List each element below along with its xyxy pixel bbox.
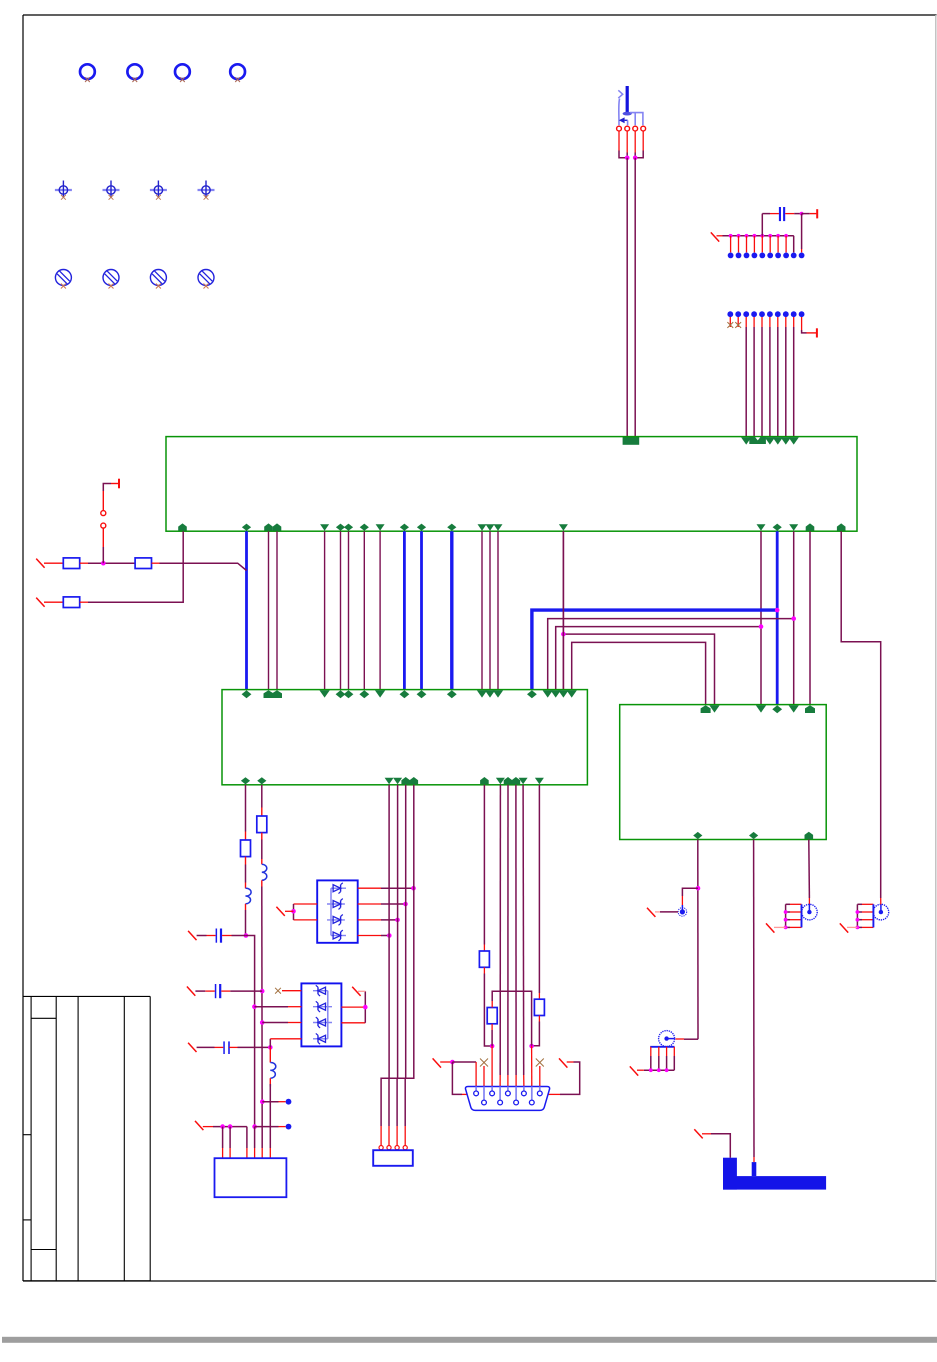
mounting hole H3	[175, 64, 190, 79]
wire U3 pin 753.6 down to shield tab	[753, 840, 755, 1158]
U1 bottom terminal GND pent	[178, 523, 187, 530]
U2 top terminal x=571.7	[567, 690, 577, 697]
C2 right wire to column	[230, 990, 262, 992]
resistor R2	[135, 558, 151, 569]
inductor L1	[246, 888, 252, 904]
wire D1 pin to column x=405.5	[381, 903, 406, 905]
wire U1->U2 x=490.0	[489, 531, 491, 689]
window bottom gray bar	[2, 1337, 937, 1343]
J4 tie wire	[785, 904, 787, 927]
junction J4 tie	[784, 926, 788, 930]
junction J4 tie	[784, 918, 788, 922]
row1 stub	[44, 562, 63, 564]
wire D1 pin to column x=413.5	[381, 887, 414, 889]
D1 right pin y=935.5	[358, 935, 381, 937]
R7 top stub	[491, 1001, 493, 1008]
junction	[403, 902, 408, 907]
U1 top pad for switch nets	[623, 437, 640, 445]
junction on TP bus at x=778.1	[776, 234, 780, 238]
inductor L2	[262, 864, 267, 880]
junction at (563.4,634.1)	[561, 632, 566, 637]
module edge pads (blue dots) bank 2	[727, 311, 733, 317]
D2 zener diode at y=990.7	[318, 987, 326, 994]
junction C1 node	[244, 933, 249, 938]
resistor R7	[487, 1008, 497, 1024]
DB9 bottom row pin 9	[531, 1087, 533, 1100]
inductor L3	[270, 1062, 276, 1078]
wire L1 to C1 junction	[245, 910, 247, 936]
C2 right stub	[221, 990, 230, 992]
wire U2 pin 484.4 down to R6	[483, 785, 485, 945]
wire R4 to L1	[245, 865, 247, 883]
wire pad x=746.2 down to U1	[745, 327, 747, 437]
sheet border frame	[23, 14, 937, 16]
junction J3 bus	[649, 1068, 653, 1072]
switch S1 arrow	[619, 117, 625, 123]
junction C9 right	[800, 212, 804, 216]
U2 top terminal x=404.4	[400, 690, 410, 698]
U2 top terminal x=547.7	[543, 690, 553, 697]
D1 zener diode at y=904.0	[333, 901, 341, 908]
C3 right stub	[229, 1046, 237, 1048]
J3 tie bus	[644, 1069, 675, 1071]
junction J3 bus	[665, 1068, 669, 1072]
resistor R5	[257, 816, 267, 833]
no-connect X D2 pin1	[275, 988, 281, 994]
D2 internal bus	[327, 991, 329, 1039]
DB9 right NC stub	[567, 1061, 574, 1063]
row1 wire to blue column	[160, 563, 247, 570]
junction on TP bus at x=762.3	[760, 234, 764, 238]
D2 right pin3 wire	[341, 1022, 365, 1024]
L1 bottom stub	[245, 904, 247, 910]
junction C2 node	[260, 989, 265, 994]
shield bracket B1 tab	[752, 1162, 757, 1176]
R1 right stub	[80, 562, 88, 564]
wire U2 pin 261.8 down	[261, 785, 263, 808]
no-connect slash on TP bus	[711, 232, 719, 241]
U2 top terminal x=563.4	[558, 690, 568, 697]
switch S1 chevron	[618, 90, 622, 98]
no-connect slash C2	[187, 987, 195, 996]
R2 right stub	[152, 562, 160, 564]
no-connect X on pad1	[727, 322, 733, 328]
resistor R1	[63, 558, 79, 569]
jumper JP1 wire up	[102, 547, 104, 563]
wire U1->U2 x=451.8	[450, 531, 453, 689]
U2 top terminal x=380.1	[375, 690, 385, 697]
junction on TP bus at x=738.5	[737, 234, 741, 238]
junction jumper row1	[101, 561, 106, 566]
U1 bottom terminal x=277.0	[273, 523, 282, 530]
pin stubs of S1	[618, 131, 620, 150]
C3 left stub	[215, 1046, 224, 1048]
U2 top terminal x=482.0	[477, 690, 487, 697]
fiducial mark FID4	[198, 189, 215, 191]
U1 bottom terminal x=841.2	[837, 523, 846, 530]
R7 bottom stub	[491, 1024, 493, 1030]
no-connect slash D2 right	[352, 987, 360, 996]
wire U1->U2 x=268.5	[268, 531, 270, 689]
wire D2 pin4 corner down to L3	[269, 1039, 271, 1048]
L3 top stub	[269, 1047, 271, 1062]
supply T terminal JP1	[118, 479, 120, 489]
C3 left wire to NC	[197, 1046, 215, 1048]
wire pad x=762.0 down to U1	[761, 327, 763, 437]
junction DB9 left loop	[450, 1060, 455, 1065]
J3 pin at x=650.8	[650, 1047, 652, 1056]
wire U1->U2 x=340.5	[340, 531, 342, 689]
wire U3 pin 697.8 down	[697, 840, 699, 1040]
U1 bottom terminal x=793.7 and wire to U3	[789, 524, 798, 531]
no-connect slash DB9 left	[433, 1058, 441, 1067]
C1 left wire to NC	[197, 935, 207, 937]
TP2 wire to column	[255, 1126, 279, 1128]
wire U1->U2 x=482.0	[481, 531, 483, 689]
J4 body bar	[801, 904, 803, 927]
J1 pin circle 3	[395, 1146, 399, 1150]
D1 right pin y=904.0	[358, 903, 381, 905]
junction	[411, 886, 416, 891]
wire S1 net A down to module U1	[626, 158, 628, 437]
TP pin stub	[769, 236, 771, 253]
junction at S1 pin3	[633, 156, 638, 161]
C1 right stub	[222, 935, 231, 937]
wire pad x=754.1 down to U1	[753, 327, 755, 437]
wire S1 net B down to module U1	[634, 158, 636, 437]
no-connect slash bracket	[694, 1129, 702, 1138]
TP2 stub	[279, 1126, 286, 1128]
wire D1 pin to column x=389.3	[381, 935, 389, 937]
wire U1->U2 x=364.3	[363, 531, 365, 689]
wire from C9 node down to pad 10	[801, 214, 803, 249]
D1 zener diode at y=888.2	[333, 885, 341, 892]
wire U3 pin 808.8 down to TP5	[808, 840, 811, 899]
shield bracket B1 vertical arm	[723, 1158, 737, 1190]
DB9 pin9 stub with X	[539, 1066, 541, 1087]
wire pad x=793.7 down to U1	[793, 327, 795, 437]
no-connect X DB9 pin6	[480, 1059, 488, 1067]
no-connect slash J5	[840, 923, 848, 932]
keepout circle K4	[198, 270, 214, 286]
TP pin stub	[777, 236, 779, 253]
jumper JP1 wire to supply	[102, 491, 104, 511]
U2 top terminal x=451.8	[447, 690, 457, 698]
TP1 stub	[279, 1101, 286, 1103]
U1 bottom terminal x=777.2 blue wire to U3	[773, 524, 782, 531]
junction D1 left tie	[291, 909, 296, 914]
junction TP2 node	[252, 1124, 257, 1129]
TP pin stub	[753, 236, 755, 253]
wire U1->U2 x=380.1	[379, 531, 381, 689]
C2 left stub	[205, 990, 215, 992]
D2 left pin1 stub to X	[282, 990, 301, 992]
mounting hole H4	[230, 64, 245, 79]
wire U2 pin 508 down to DB9	[507, 785, 509, 1075]
U2 top terminal x=421.5	[417, 690, 427, 698]
wire from U1 841.2 jog right to far right testpoint	[841, 531, 881, 898]
wire pad x=769.9 down to U1	[769, 327, 771, 437]
U1 bottom terminal x=761 and wire to U3	[757, 524, 766, 531]
D2 right pin2 wire	[341, 1006, 365, 1008]
junction J5 tie	[856, 910, 860, 914]
DB9 top row pin 3	[507, 1087, 509, 1091]
junction on TP bus at x=754.4	[753, 234, 757, 238]
junction X1 pin1	[220, 1124, 225, 1129]
J3 pin at x=666.6	[666, 1047, 668, 1056]
wire U1->U2 x=277.0	[276, 531, 278, 689]
no-connect slash DB9 right	[559, 1058, 567, 1067]
C1 left stub	[207, 935, 216, 937]
testpoint TP4 circle	[659, 1031, 675, 1047]
branch wire to TP3	[682, 888, 698, 896]
DB9 pin6 stub with X	[483, 1066, 485, 1087]
mounting hole H2	[127, 64, 142, 79]
D2 right NC stub	[358, 990, 365, 992]
DB9 bottom row pin 6	[483, 1087, 485, 1100]
J1 pin circle 2	[387, 1146, 391, 1150]
U2 top terminal x=268.5	[264, 690, 274, 698]
U1 bottom terminal x=380.1	[376, 524, 385, 531]
U2 top terminal x=348.5	[344, 690, 354, 698]
D1 internal pin lines	[327, 903, 345, 905]
header J1 body	[373, 1150, 413, 1166]
row1 wire to R2	[88, 562, 135, 564]
diode array D2 outline	[301, 983, 341, 1046]
DB9 top row pin 5	[539, 1087, 541, 1091]
mounting hole H1	[80, 64, 95, 79]
DB9 right loop wire	[560, 1062, 580, 1094]
bracket NC wire	[702, 1133, 711, 1135]
TP pin stub	[738, 236, 740, 253]
DB9 left shell wire	[452, 1062, 462, 1094]
wire U2 pin 515.9 down to DB9	[515, 785, 517, 1075]
wire L3 down to module X1 pin6	[269, 1084, 271, 1148]
U3 bottom terminals	[693, 832, 702, 839]
X1 pin2 stub down	[229, 1127, 231, 1148]
switch S1 base disc	[623, 112, 632, 116]
D2 left pin2 wire	[288, 1006, 301, 1008]
C9 right wire	[785, 213, 794, 215]
blue bus wire U2 pin to U3 x=777.2	[532, 610, 777, 690]
wire U2 pin 523.1 down to DB9	[522, 785, 525, 1075]
shield bracket B1 horizontal arm	[723, 1176, 826, 1190]
wire R5 to L2	[261, 840, 263, 860]
U2 bottom terminals mid cluster	[385, 778, 394, 785]
wire U1->U2 x=421.5	[420, 531, 423, 689]
switch S1 pins	[617, 126, 622, 131]
wire S1 pin1 to pin2 net	[619, 151, 627, 158]
no-connect slash C3	[188, 1043, 196, 1052]
resistor R4	[241, 840, 251, 857]
diode array D1 outline	[317, 880, 358, 942]
wire h3 U2-U3 net y=626.6	[556, 627, 761, 690]
resistor R6	[479, 951, 489, 967]
U2 top terminal x=531.9	[527, 690, 537, 698]
junction on TP bus at x=746.5	[745, 234, 749, 238]
keepout circle K1	[55, 270, 71, 286]
TP pin stub	[730, 236, 732, 253]
switch S1 wire pin1	[618, 99, 621, 126]
C1 right wire to column	[232, 935, 246, 937]
U2 top terminal x=364.3	[359, 690, 369, 698]
keepout circle K2	[103, 270, 119, 286]
U1 bottom terminal x=810 and wire to U3	[806, 523, 815, 530]
wire D1 pin to column x=397.5	[381, 919, 398, 921]
R4 bottom stub	[245, 857, 247, 865]
testpoint TP5 circle	[802, 904, 818, 920]
TP bank1 bus wire	[723, 235, 794, 237]
DB9 top row pin 4	[523, 1087, 525, 1091]
J5 body bar	[872, 904, 874, 927]
junction on TP bus at x=770.2	[768, 234, 772, 238]
no-connect X DB9 pin9	[536, 1059, 544, 1067]
wire L2 down to module X1 pin5	[261, 887, 263, 1149]
U1 bottom terminal x=364.3	[360, 524, 369, 531]
R5 bottom stub	[261, 833, 263, 840]
row2 wire to U1 pin 182.5	[88, 531, 183, 602]
junction D2 right tie	[363, 1005, 368, 1010]
no-connect slash TP3	[647, 908, 655, 917]
U2 bottom terminals right cluster	[480, 777, 489, 784]
D2 left pin4 wire	[270, 1038, 301, 1040]
D2 internal pin lines	[313, 990, 328, 992]
junction on TP bus at x=730.6	[729, 234, 733, 238]
wire h2 U2-U3 net y=618.6	[548, 619, 794, 690]
wire U2 pin 539.4 down to R8	[538, 785, 540, 993]
no-connect slash J3	[630, 1066, 638, 1075]
module U3 outline	[620, 705, 827, 840]
wire U2 to J1 pin4	[405, 785, 414, 1126]
DB9 bottom row pin 7	[499, 1087, 501, 1100]
resistor R8	[534, 999, 544, 1015]
junction	[387, 933, 392, 938]
X1 pin1 stub down	[222, 1127, 224, 1148]
fiducial mark FID1	[55, 189, 72, 191]
DB9 top row pin 2	[491, 1087, 493, 1091]
wire R7 top jog to 531.6 node	[492, 991, 531, 1046]
wire h5 net y=642.4 to U3 pin 705.6	[572, 642, 706, 704]
DB9 pin1 stub up	[475, 1062, 477, 1087]
C9 left wire down to bus	[761, 214, 763, 236]
C9 left wire	[770, 213, 779, 215]
switch S1 actuator bar	[626, 86, 629, 113]
no-connect slash D1	[276, 907, 284, 916]
TP pin stub	[761, 236, 763, 253]
X1 NC bus wire	[213, 1126, 247, 1128]
junction X1 pin2	[228, 1124, 233, 1129]
U2 top terminal x=324.6	[319, 690, 329, 697]
no-connect X on pad2	[735, 322, 741, 328]
no-connect slash C1	[188, 931, 196, 940]
U1 bottom terminal x=404.4	[400, 524, 409, 531]
no-connect slash row2	[36, 598, 44, 607]
D2 left pin3 wire	[288, 1022, 301, 1024]
U2 top terminal x=340.5	[336, 690, 346, 698]
DB9 pin4 stub	[531, 1046, 533, 1087]
DB9 right shell stub	[547, 1093, 560, 1095]
TP bank1 pads (blue dots)	[728, 253, 734, 259]
junction D2 pin3 node	[260, 1020, 265, 1025]
resistor R3	[63, 597, 79, 608]
U1 bottom terminal x=268.5	[264, 523, 273, 530]
junction branch to TP3	[696, 886, 701, 891]
J1 pin circle 4	[403, 1146, 407, 1150]
X1 pin3 wire down	[246, 1127, 248, 1148]
wire U1->U2 x=563.4	[562, 531, 564, 689]
wire R8 down corner to pin4 node	[532, 1022, 540, 1046]
D2 zener diode at y=1006.7	[318, 1003, 326, 1010]
TP1 wire to column	[262, 1101, 278, 1103]
header J4 pins	[790, 903, 802, 905]
no-connect slash row1	[36, 559, 44, 568]
bank2 pin stubs	[729, 317, 731, 327]
wire 698 corner into TP4 header	[684, 1038, 698, 1040]
junction at (793.7,618.6)	[791, 616, 796, 621]
J5 tie wire	[856, 904, 858, 927]
wire U2 to J1 pin2	[389, 785, 398, 1126]
wire pad10 to supply T	[802, 330, 807, 333]
supply T terminal right	[816, 328, 818, 337]
wire U1->U2 x=404.4	[403, 531, 406, 689]
stub into module X1 pin5	[261, 1148, 263, 1158]
U2 top terminal x=277.0	[272, 690, 282, 698]
module U1 (main controller) outline	[166, 437, 857, 532]
wire U1->U2 x=498.0	[497, 531, 499, 689]
DB9 pin2 stub	[491, 1046, 493, 1087]
junction J4 tie	[784, 910, 788, 914]
testpoint TP1 blue pad	[286, 1099, 292, 1105]
D1 left pins	[294, 903, 318, 905]
D1 zener diode at y=935.5	[333, 932, 341, 939]
wire jog right to 254.6	[246, 936, 255, 1127]
wire S1 pin4 to pin3 net	[635, 151, 643, 158]
junction DB9 pin2 node	[490, 1044, 495, 1049]
TP pin stub	[785, 236, 787, 253]
header J5 pins	[862, 903, 873, 905]
U2 top terminal x=490.0	[485, 690, 495, 697]
R3 right stub	[80, 601, 88, 603]
U2 top terminal x=555.7	[551, 690, 561, 697]
jumper JP1 pin circles	[101, 523, 106, 528]
header J3 bar	[650, 1046, 674, 1048]
U1 bottom terminal x=340.5	[336, 524, 345, 531]
row2 stub	[44, 601, 63, 603]
D2 right tie wire	[364, 991, 366, 1023]
capacitor C3 plates	[223, 1041, 225, 1054]
junction DB9 pin4 node	[529, 1044, 534, 1049]
L3 bottom stub	[269, 1078, 271, 1086]
R6 bottom stub	[483, 967, 485, 973]
D1 left NC stub	[285, 910, 294, 912]
wire U2 pin 245.5 down	[245, 785, 247, 832]
wire U2 to J1 pin1	[381, 785, 389, 1126]
J1 pin circle 1	[379, 1146, 383, 1150]
J3 pin at x=658.8	[658, 1047, 660, 1056]
supply T terminal	[816, 209, 818, 218]
junction on TP bus at x=786.1	[784, 234, 788, 238]
junction at S1 pin2	[625, 156, 630, 161]
capacitor C1 plates	[216, 929, 218, 943]
testpoint TP6 circle far right	[873, 904, 889, 920]
junction TP1 node	[260, 1099, 265, 1104]
capacitor C9 plates	[779, 207, 781, 221]
module X1 outline	[215, 1158, 287, 1197]
wire U1->U2 x=324.6	[324, 531, 326, 689]
wire U2 to J1 pin3	[397, 785, 406, 1126]
testpoint TP2 blue pad	[286, 1124, 292, 1130]
wire into TP6 from U1 jog	[880, 898, 882, 905]
